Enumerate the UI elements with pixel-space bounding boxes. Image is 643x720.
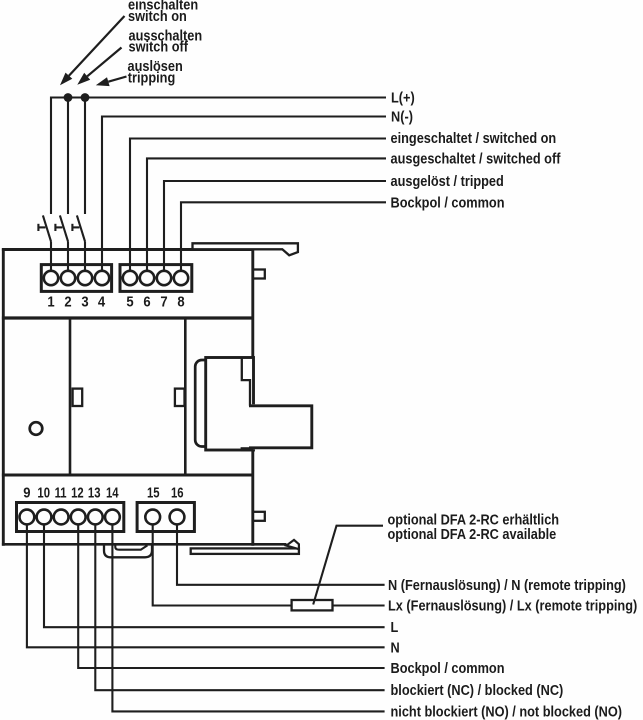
device enclosure right edge xyxy=(251,248,254,546)
inner panel line right xyxy=(184,318,187,475)
handle bottom thick mark xyxy=(241,447,254,451)
wire terminal 15 to "Lx (Fernauslösung)" xyxy=(153,531,385,606)
terminal 12 circle xyxy=(71,510,86,525)
terminal 10 circle xyxy=(37,510,52,525)
bottom DIN-rail flange bar xyxy=(191,548,299,554)
handle notch step xyxy=(242,358,250,406)
terminal 3 circle xyxy=(78,271,92,285)
svg-text:nicht blockiert (NO) / not blo: nicht blockiert (NO) / not blocked (NO) xyxy=(391,704,623,720)
terminal 7 circle xyxy=(157,271,171,285)
svg-text:12: 12 xyxy=(71,484,84,501)
wire L(+) bus xyxy=(51,98,386,215)
bottom DIN slider tab inner xyxy=(115,545,147,550)
pointer line to resistor xyxy=(313,526,383,605)
svg-text:13: 13 xyxy=(88,484,101,501)
wire terminal 16 to "N (Fernauslösung)" xyxy=(177,531,385,585)
terminal block X4 (15-16) xyxy=(137,503,194,532)
svg-text:9: 9 xyxy=(23,485,31,501)
terminal 15 circle xyxy=(145,510,160,525)
junction dot (tripping tap) xyxy=(81,93,90,102)
svg-text:11: 11 xyxy=(55,484,67,501)
label "ausschalten / switch off" xyxy=(129,28,203,55)
svg-text:ausgelöst / tripped: ausgelöst / tripped xyxy=(391,173,504,189)
terminal 6 circle xyxy=(140,271,154,285)
svg-text:10: 10 xyxy=(37,484,50,501)
svg-text:eingeschaltet / switched on: eingeschaltet / switched on xyxy=(391,130,557,146)
wire terminal 5 to "eingeschaltet" xyxy=(130,139,386,273)
wire terminal 8 to "Bockpol" xyxy=(181,202,386,272)
terminal 2 circle xyxy=(61,271,75,285)
svg-text:Bockpol / common: Bockpol / common xyxy=(391,195,505,211)
terminal block X1 (1-4) xyxy=(41,265,111,292)
device enclosure left edge xyxy=(2,248,5,546)
toggle handle body xyxy=(206,358,254,451)
terminal block X2 (5-8) xyxy=(120,265,192,292)
svg-text:blockiert (NC) / blocked (NC): blockiert (NC) / blocked (NC) xyxy=(391,682,564,698)
svg-text:N: N xyxy=(391,640,400,656)
svg-text:16: 16 xyxy=(171,484,184,501)
terminal block X3 (9-14) xyxy=(17,503,124,532)
svg-text:4: 4 xyxy=(98,294,106,310)
terminal 9 circle xyxy=(20,510,35,525)
wire terminal 9 to "N" xyxy=(27,517,385,647)
svg-text:2: 2 xyxy=(64,294,72,310)
junction dot (switch off tap) xyxy=(64,93,73,102)
arrow pointer: ausschalten xyxy=(77,48,121,85)
svg-text:switch off: switch off xyxy=(129,39,189,55)
toggle lever white body xyxy=(250,404,312,449)
front panel circle xyxy=(30,422,43,435)
wire terminal 6 to "ausgeschaltet" xyxy=(147,158,386,272)
svg-text:ausgeschaltet / switched off: ausgeschaltet / switched off xyxy=(391,151,561,167)
device enclosure bottom edge xyxy=(2,543,287,546)
terminal 16 circle xyxy=(170,510,185,525)
side clip lower xyxy=(253,512,265,521)
label "einschalten / switch on" xyxy=(128,0,198,24)
label "auslösen / tripping" xyxy=(128,58,183,85)
svg-text:8: 8 xyxy=(177,294,185,310)
wire terminal 7 to "ausgelöst" xyxy=(164,181,386,272)
svg-text:L(+): L(+) xyxy=(391,90,415,106)
toggle handle rounded cap xyxy=(195,360,213,447)
wire N(-) to terminal 4 xyxy=(102,117,386,273)
device enclosure top edge xyxy=(2,248,254,251)
wire from dot to switch S3 xyxy=(84,98,86,215)
pushbutton S1 (switch on) xyxy=(38,215,51,241)
terminal 1 circle xyxy=(44,271,58,285)
panel clip left xyxy=(73,389,83,406)
panel clip right xyxy=(175,389,185,406)
wire terminal 10 to "L" xyxy=(44,517,385,627)
svg-text:N (Fernauslösung) / N (remote: N (Fernauslösung) / N (remote tripping) xyxy=(388,577,626,593)
wire stubs into terminals 1-8 xyxy=(51,264,181,274)
wire terminal 12 to "Bockpol / common" xyxy=(78,517,384,668)
svg-text:3: 3 xyxy=(81,294,89,310)
svg-text:1: 1 xyxy=(47,294,55,310)
svg-text:tripping: tripping xyxy=(128,70,175,86)
svg-text:Bockpol / common: Bockpol / common xyxy=(391,660,505,676)
terminal 11 circle xyxy=(54,510,69,525)
wire switch S3 to terminal 3 xyxy=(84,241,86,272)
wire terminal 14 to "nicht blockiert (NO)" xyxy=(112,517,384,711)
terminal 8 circle xyxy=(174,271,188,285)
wire terminal 13 to "blockiert (NC)" xyxy=(95,517,384,690)
pushbutton S2 (switch off) xyxy=(55,215,68,241)
svg-text:15: 15 xyxy=(147,484,160,501)
pushbutton S3 (tripping) xyxy=(72,215,85,241)
label "optional DFA 2-RC erhältlich / available" xyxy=(388,512,560,542)
wire stubs out of terminals 9,10,12,13,14,15,16 xyxy=(27,521,177,533)
svg-text:Lx (Fernauslösung) / Lx (remot: Lx (Fernauslösung) / Lx (remote tripping… xyxy=(388,598,637,614)
terminal 14 circle xyxy=(105,510,120,525)
svg-text:N(-): N(-) xyxy=(391,109,413,125)
wire switch S1 to terminal 1 xyxy=(50,241,52,272)
lower divider line xyxy=(2,474,253,477)
arrow pointer: auslösen xyxy=(96,77,127,87)
arrow pointer: einschalten xyxy=(60,16,125,85)
toggle lever outline xyxy=(249,406,312,448)
side clip upper xyxy=(253,270,265,279)
resistor DFA 2-RC module xyxy=(292,600,333,610)
svg-text:14: 14 xyxy=(106,484,119,501)
upper divider line xyxy=(2,316,253,319)
svg-text:6: 6 xyxy=(143,294,151,310)
svg-text:7: 7 xyxy=(160,294,168,310)
bottom DIN slider tab outer xyxy=(104,545,152,557)
wire from dot to switch S2 xyxy=(67,98,69,215)
terminal 4 circle xyxy=(95,271,109,285)
svg-text:5: 5 xyxy=(126,294,134,310)
top DIN-rail flange xyxy=(193,243,298,255)
svg-text:L: L xyxy=(391,619,399,635)
bottom DIN-rail flange beak xyxy=(286,540,299,549)
terminal 5 circle xyxy=(123,271,137,285)
svg-text:optional DFA 2-RC available: optional DFA 2-RC available xyxy=(388,526,557,542)
inner panel line left xyxy=(69,318,72,475)
terminal 13 circle xyxy=(88,510,103,525)
svg-text:switch on: switch on xyxy=(128,8,187,24)
wire switch S2 to terminal 2 xyxy=(67,241,69,272)
